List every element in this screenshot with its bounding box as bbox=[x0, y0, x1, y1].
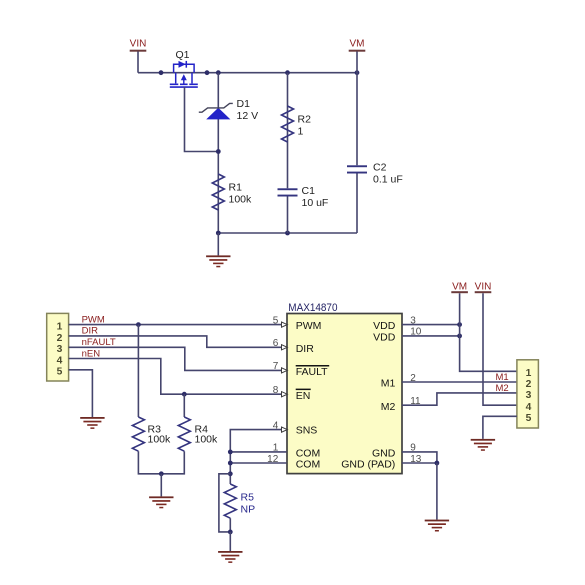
wire R5 bypass bracket bbox=[219, 474, 230, 532]
wire connector J2 pin5 to ground bbox=[483, 416, 517, 439]
wire PWM net bbox=[69, 324, 287, 326]
svg-text:M1: M1 bbox=[381, 378, 396, 390]
wire C2 branch bbox=[356, 52, 358, 234]
junction dot R3R4 gnd bbox=[159, 471, 164, 476]
svg-text:FAULT: FAULT bbox=[296, 366, 328, 378]
svg-text:5: 5 bbox=[273, 315, 279, 326]
junction dot rail-mid bbox=[205, 70, 210, 75]
wire gate of Q1 to node bbox=[185, 87, 219, 151]
svg-text:3: 3 bbox=[410, 315, 416, 326]
svg-text:R5: R5 bbox=[241, 492, 255, 504]
wire R3/R4 bottom link bbox=[138, 451, 184, 474]
svg-text:3: 3 bbox=[57, 344, 63, 355]
wire COM pin12 bbox=[230, 462, 286, 464]
svg-text:8: 8 bbox=[273, 385, 279, 396]
svg-text:12 V: 12 V bbox=[237, 110, 259, 122]
wire stem to ground R5 bbox=[229, 532, 231, 551]
svg-text:SNS: SNS bbox=[296, 425, 318, 437]
wire ground stem top bbox=[217, 233, 219, 255]
resistor R3 bbox=[132, 417, 144, 451]
svg-text:R2: R2 bbox=[298, 114, 312, 126]
pin 4 SNS arrow bbox=[282, 427, 288, 432]
capacitor C1 bbox=[278, 188, 298, 196]
wire stem to ground bbox=[160, 474, 162, 497]
junction dot rail-D1 bbox=[216, 70, 221, 75]
supply symbol VM (top) bbox=[349, 39, 366, 52]
wire connector pin5 to ground bbox=[69, 370, 93, 417]
svg-text:C1: C1 bbox=[302, 185, 316, 197]
wire D1 branch vertical bbox=[217, 73, 219, 233]
svg-text:MAX14870: MAX14870 bbox=[288, 302, 337, 314]
wire DIR net bbox=[69, 336, 287, 347]
svg-text:PWM: PWM bbox=[82, 314, 105, 325]
wire bottom rail bbox=[218, 232, 357, 234]
wire M1 net bbox=[402, 381, 517, 383]
junction dot VM pin3 bbox=[457, 322, 462, 327]
wire nEN net bbox=[69, 359, 287, 395]
junction dot rail-R2 bbox=[285, 70, 290, 75]
pin 6 DIR arrow bbox=[282, 345, 288, 350]
pin name EN with overline bbox=[296, 389, 311, 402]
junction dot VM pin10 bbox=[457, 334, 462, 339]
wire VDD pin3 bbox=[402, 324, 460, 326]
svg-text:7: 7 bbox=[273, 361, 279, 372]
svg-text:6: 6 bbox=[273, 338, 279, 349]
svg-text:VDD: VDD bbox=[373, 332, 396, 344]
svg-text:DIR: DIR bbox=[82, 326, 99, 337]
wire VIN stem bbox=[137, 52, 139, 73]
svg-text:PWM: PWM bbox=[296, 320, 322, 332]
wire GND pin13 bbox=[402, 462, 437, 464]
svg-text:DIR: DIR bbox=[296, 343, 315, 355]
junction dot rail-left bbox=[159, 70, 164, 75]
svg-text:NP: NP bbox=[241, 504, 256, 516]
label R1 value bbox=[229, 182, 253, 206]
svg-text:10: 10 bbox=[410, 327, 422, 338]
junction dot nEN/R4 bbox=[182, 392, 187, 397]
transistor Q1 bbox=[170, 61, 198, 87]
ground (R5) bbox=[218, 551, 242, 563]
wire GND pin9 bbox=[402, 452, 437, 463]
svg-text:M1: M1 bbox=[496, 372, 509, 383]
label R3 value bbox=[148, 423, 172, 445]
junction dot GND pins bbox=[435, 461, 440, 466]
svg-text:M2: M2 bbox=[496, 383, 509, 394]
resistor R2 bbox=[282, 106, 294, 142]
svg-text:COM: COM bbox=[296, 458, 321, 470]
junction dot gate node bbox=[216, 149, 221, 154]
svg-text:EN: EN bbox=[296, 390, 311, 402]
svg-text:VDD: VDD bbox=[373, 320, 396, 332]
svg-text:11: 11 bbox=[410, 396, 421, 407]
label C1 value bbox=[302, 185, 329, 209]
svg-text:100k: 100k bbox=[148, 434, 172, 446]
svg-text:1: 1 bbox=[298, 126, 304, 138]
svg-text:VIN: VIN bbox=[475, 281, 492, 292]
wire SNS net bbox=[230, 430, 286, 484]
svg-text:C2: C2 bbox=[373, 162, 387, 174]
junction dot bottom-left bbox=[216, 231, 221, 236]
svg-text:M2: M2 bbox=[381, 401, 396, 413]
label R5 value bbox=[241, 492, 256, 516]
pin 8 EN arrow bbox=[282, 392, 288, 397]
wire VIN net to connector pin4 bbox=[483, 293, 517, 405]
label R4 value bbox=[195, 423, 219, 445]
svg-text:nEN: nEN bbox=[82, 348, 101, 359]
ground (R3 R4) bbox=[149, 496, 173, 508]
svg-text:R1: R1 bbox=[229, 182, 243, 194]
svg-text:9: 9 bbox=[410, 443, 416, 454]
label R2 value bbox=[298, 114, 312, 138]
svg-text:2: 2 bbox=[57, 333, 63, 344]
junction dot rail-VM bbox=[355, 70, 360, 75]
connector J1 (left) bbox=[47, 313, 69, 381]
svg-text:VM: VM bbox=[452, 281, 467, 292]
junction dot COM12 bbox=[228, 461, 233, 466]
wire nFAULT net bbox=[69, 347, 287, 370]
ground (IC GND) bbox=[425, 520, 449, 532]
label C2 value bbox=[373, 162, 403, 186]
junction dot R5 bottom bbox=[228, 530, 233, 535]
wire R4 top lead bbox=[183, 394, 185, 417]
wire R3 top lead bbox=[137, 325, 139, 417]
supply symbol VIN (top) bbox=[130, 39, 147, 52]
svg-text:2: 2 bbox=[526, 379, 532, 390]
pin name FAULT with overline bbox=[296, 365, 330, 378]
capacitor C2 bbox=[347, 165, 367, 173]
svg-text:D1: D1 bbox=[237, 98, 251, 110]
connector J2 (right) bbox=[517, 360, 539, 428]
svg-text:10 uF: 10 uF bbox=[302, 197, 329, 209]
wire stem to ground GND bbox=[436, 463, 438, 520]
svg-text:5: 5 bbox=[526, 413, 532, 424]
svg-text:4: 4 bbox=[57, 355, 63, 366]
resistor R4 bbox=[178, 417, 190, 451]
svg-text:100k: 100k bbox=[195, 434, 219, 446]
svg-text:3: 3 bbox=[526, 390, 532, 401]
wire R2 branch bbox=[287, 73, 289, 233]
supply symbol VM (right) bbox=[451, 281, 468, 293]
svg-text:1: 1 bbox=[526, 368, 532, 379]
wire M2 net bbox=[402, 393, 517, 405]
wire R5 bottom lead bbox=[229, 518, 231, 532]
pin 5 PWM arrow bbox=[282, 322, 288, 327]
label D1 value bbox=[237, 98, 259, 122]
wire VM net to connector pin1 bbox=[460, 293, 517, 371]
svg-text:0.1 uF: 0.1 uF bbox=[373, 174, 403, 186]
svg-text:2: 2 bbox=[410, 373, 416, 384]
svg-text:VIN: VIN bbox=[130, 39, 147, 50]
svg-text:GND (PAD): GND (PAD) bbox=[341, 458, 395, 470]
svg-text:nFAULT: nFAULT bbox=[82, 337, 116, 348]
junction dot R5 top bbox=[228, 471, 233, 476]
diode D1 (zener 12V) bbox=[199, 103, 233, 119]
wire COM pin1 bbox=[230, 451, 286, 453]
junction dot COM1 bbox=[228, 450, 233, 455]
svg-text:100k: 100k bbox=[229, 194, 253, 206]
resistor R1 bbox=[212, 174, 224, 210]
junction dot PWM/R3 bbox=[136, 322, 141, 327]
svg-text:13: 13 bbox=[410, 454, 422, 465]
supply symbol VIN (right) bbox=[475, 281, 492, 293]
svg-text:Q1: Q1 bbox=[176, 49, 190, 61]
svg-text:VM: VM bbox=[350, 39, 365, 50]
wire VDD pin10 bbox=[402, 335, 460, 337]
ground (right connector) bbox=[471, 439, 495, 451]
IC U1 MAX14870 body bbox=[287, 314, 402, 474]
wire top rail bbox=[138, 72, 357, 74]
svg-text:5: 5 bbox=[57, 367, 63, 378]
junction dot bottom-C1 bbox=[285, 231, 290, 236]
svg-text:1: 1 bbox=[57, 322, 63, 333]
resistor R5 bbox=[224, 484, 236, 518]
svg-text:4: 4 bbox=[526, 402, 532, 413]
pin 7 FAULT arrow bbox=[282, 368, 288, 373]
ground (top circuit) bbox=[206, 255, 230, 267]
ground (left connector) bbox=[80, 417, 104, 429]
